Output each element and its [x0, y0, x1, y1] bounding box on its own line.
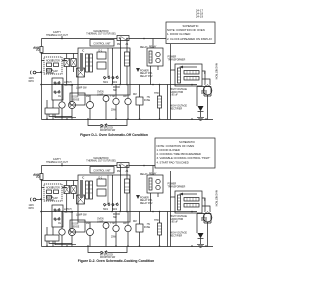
- svg-text:2. COOKING TIME PROGRAMMED: 2. COOKING TIME PROGRAMMED: [157, 152, 201, 156]
- svg-text:1. DOOR CLOSED: 1. DOOR CLOSED: [167, 32, 190, 36]
- svg-text:1. DOOR CLOSED: 1. DOOR CLOSED: [157, 148, 180, 152]
- svg-text:SCHEMATIC: SCHEMATIC: [183, 24, 199, 28]
- svg-text:NOTE: CONDITION OF OVEN: NOTE: CONDITION OF OVEN: [167, 28, 205, 32]
- svg-text:SCHEMATIC: SCHEMATIC: [179, 140, 195, 144]
- svg-text:2. CLOCK APPEARED ON DISPLAY: 2. CLOCK APPEARED ON DISPLAY: [167, 37, 212, 41]
- svg-text:Figure D-1. Oven Schematic-Off: Figure D-1. Oven Schematic-Off Condition: [80, 133, 148, 137]
- svg-text:3. VARIABLE COOKING CONTROL ": 3. VARIABLE COOKING CONTROL "HIGH": [157, 156, 211, 160]
- svg-text:Figure D-2. Oven Schematic-Coo: Figure D-2. Oven Schematic-Cooking Condi…: [78, 259, 154, 263]
- svg-text:24-19: 24-19: [196, 14, 204, 18]
- svg-text:4. START PAD TOUCHED: 4. START PAD TOUCHED: [157, 161, 189, 165]
- svg-text:NOTE: CONDITION OF OVEN: NOTE: CONDITION OF OVEN: [157, 144, 195, 148]
